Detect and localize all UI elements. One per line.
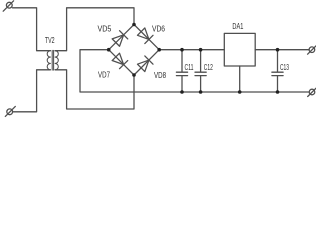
svg-text:C11: C11 — [185, 62, 194, 72]
svg-text:C13: C13 — [280, 62, 289, 72]
svg-text:DA1: DA1 — [232, 21, 243, 31]
svg-text:VD7: VD7 — [98, 70, 110, 80]
svg-text:VD5: VD5 — [98, 24, 112, 34]
svg-text:C12: C12 — [204, 62, 213, 72]
svg-text:VD6: VD6 — [152, 23, 165, 33]
svg-text:VD8: VD8 — [154, 70, 166, 80]
svg-text:TV2: TV2 — [45, 35, 55, 45]
